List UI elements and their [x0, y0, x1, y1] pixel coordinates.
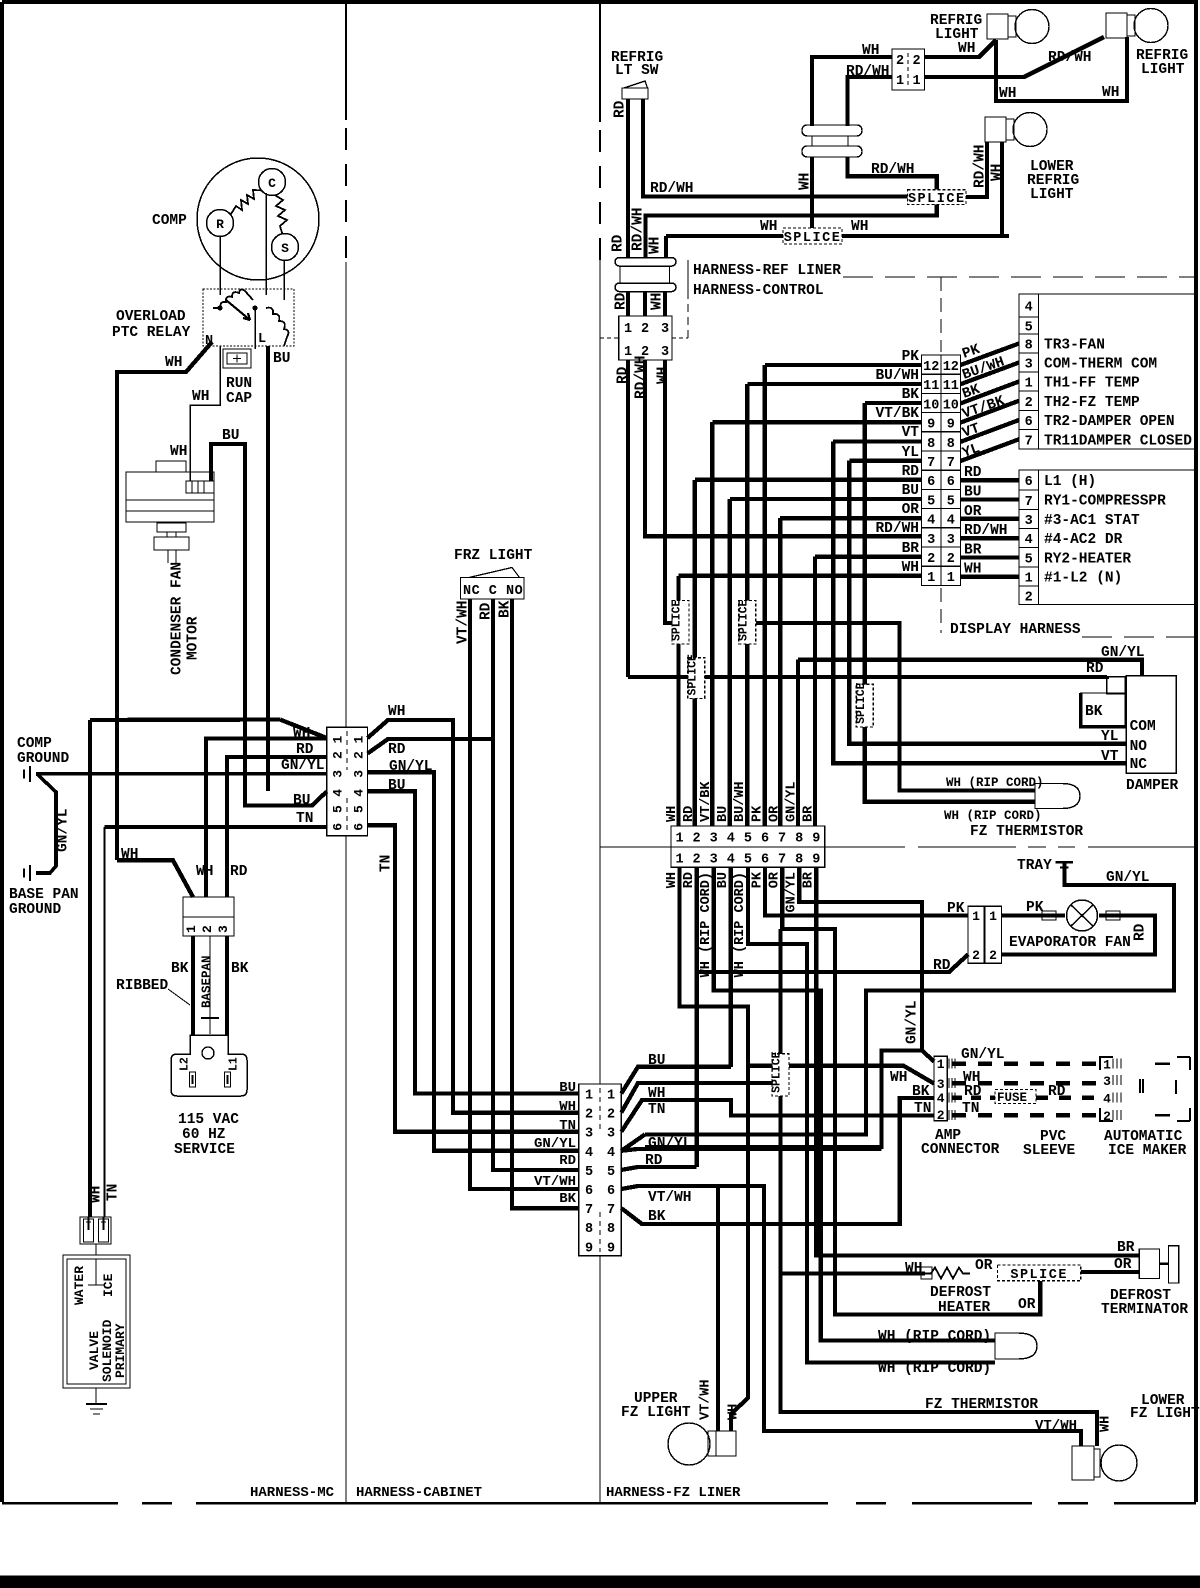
svg-text:WH: WH [964, 562, 981, 578]
svg-text:6: 6 [927, 475, 935, 490]
svg-text:4: 4 [352, 789, 367, 797]
svg-text:TN: TN [296, 811, 313, 827]
svg-text:GN/YL: GN/YL [281, 758, 325, 774]
svg-text:VT/WH: VT/WH [1035, 1418, 1077, 1434]
svg-text:1: 1 [607, 1089, 615, 1104]
svg-text:RD: RD [296, 742, 314, 758]
wire BK basepan pin1 ribbed power lead [191, 936, 195, 1036]
wires C1 bars to 3-pin box [626, 292, 630, 317]
wire RD/WH inline connector to splice 1 [848, 157, 937, 190]
svg-text:DEFROST: DEFROST [930, 1285, 991, 1301]
wire BR liner pin9 to defrost terminator [816, 867, 1139, 1255]
svg-text:5: 5 [585, 1165, 593, 1180]
svg-text:2: 2 [200, 925, 215, 933]
svg-text:6: 6 [607, 1184, 615, 1199]
wire WH ladder row1 riser [679, 576, 922, 601]
damper BK jumper box [1081, 693, 1126, 727]
svg-text:3: 3 [585, 1127, 593, 1142]
svg-text:OR: OR [975, 1258, 993, 1274]
svg-text:VT/BK: VT/BK [699, 781, 714, 822]
upper FZ light bulb [708, 1431, 716, 1456]
svg-text:BASEPAN: BASEPAN [200, 955, 214, 1008]
svg-text:2: 2 [693, 853, 701, 868]
svg-text:FRZ LIGHT: FRZ LIGHT [454, 548, 533, 564]
svg-text:1: 1 [1025, 572, 1033, 587]
svg-text:SOLENOID: SOLENOID [100, 1319, 115, 1382]
svg-text:RD/WH: RD/WH [631, 207, 647, 251]
svg-text:WH: WH [293, 726, 310, 742]
water valve ground [95, 1388, 97, 1404]
wire RD evap fan return [1002, 916, 1155, 955]
wire WH rip liner pin5 to FZ thermistor 2 bottom [748, 867, 995, 1362]
svg-text:RD/WH: RD/WH [964, 523, 1008, 539]
condenser fan motor body [156, 461, 186, 472]
svg-text:BU/WH: BU/WH [733, 781, 748, 822]
svg-text:OR: OR [964, 504, 982, 520]
svg-text:3: 3 [937, 1077, 945, 1092]
wire BK basepan pin3 power lead [225, 936, 229, 1036]
svg-text:RD/WH: RD/WH [871, 162, 915, 178]
svg-text:5: 5 [1025, 321, 1033, 336]
wire WH inline connector to splice 2 [810, 157, 814, 228]
wire GN/YL to AMP pin1 [922, 1051, 934, 1062]
svg-text:BU: BU [716, 806, 731, 822]
wire WH rip liner pin3 to FZ thermistor 2 top [714, 867, 995, 1340]
wire OR ladder row4 riser [780, 518, 921, 826]
wire GN/YL comp ground to 6-pin pin3 [36, 772, 327, 776]
defrost terminator [1139, 1249, 1159, 1279]
svg-text:TR3-FAN: TR3-FAN [1044, 338, 1105, 354]
wire GN/YL cabinet pin4 to tray loop [621, 1134, 645, 1150]
svg-text:RD: RD [964, 1084, 982, 1100]
svg-text:1: 1 [989, 909, 997, 924]
svg-text:RD: RD [964, 465, 982, 481]
svg-text:RUN: RUN [226, 376, 252, 392]
svg-text:OVERLOAD: OVERLOAD [116, 309, 186, 325]
svg-text:5: 5 [744, 832, 752, 847]
defrost heater element [925, 1268, 970, 1279]
wire WH splice branch [665, 621, 673, 625]
svg-text:WH: WH [388, 704, 405, 720]
svg-text:6: 6 [947, 475, 955, 490]
splice BU/WH control [739, 601, 756, 645]
wire RD/WH splice 1 to lower refrig light [966, 142, 987, 197]
svg-text:7: 7 [585, 1203, 593, 1218]
wire OR liner pin7 to defrost heater loop [782, 867, 1040, 1314]
svg-text:3: 3 [216, 925, 231, 933]
svg-text:4: 4 [727, 832, 735, 847]
overload PTC relay box [203, 289, 294, 346]
wire WH refrig light 1 to light 2 return [996, 37, 1127, 101]
splice defrost heater [998, 1265, 1081, 1281]
lower FZ light bulb [1072, 1446, 1094, 1480]
svg-text:WH: WH [798, 173, 814, 190]
bottom border line with dash gaps [2, 1502, 1196, 1505]
svg-text:9: 9 [927, 418, 935, 433]
svg-text:5: 5 [1025, 552, 1033, 567]
svg-text:COMP: COMP [152, 213, 187, 229]
svg-text:GROUND: GROUND [9, 902, 62, 918]
wire TN dashed to ice maker [952, 1113, 1100, 1118]
svg-text:BK: BK [912, 1084, 930, 1100]
svg-text:BU: BU [902, 483, 919, 499]
svg-text:10: 10 [943, 398, 959, 413]
bottom page edge black bar [0, 1576, 1200, 1588]
svg-text:CAP: CAP [226, 391, 252, 407]
svg-text:BR: BR [1117, 1240, 1135, 1256]
svg-text:1: 1 [896, 74, 904, 89]
svg-text:L1 (H): L1 (H) [1044, 474, 1096, 490]
svg-text:CONNECTOR: CONNECTOR [921, 1142, 1000, 1158]
wire RD/WH refrig switch to splice [643, 99, 908, 197]
FZ thermistor 1 bulb [1035, 784, 1080, 809]
svg-text:WH: WH [902, 560, 919, 576]
svg-text:3: 3 [710, 832, 718, 847]
compressor winding C-S [275, 195, 287, 234]
svg-text:4: 4 [927, 514, 935, 529]
svg-text:4: 4 [1025, 533, 1033, 548]
svg-text:BU: BU [388, 778, 405, 794]
svg-text:TRAY: TRAY [1017, 858, 1052, 874]
wire WH basepan pin2 to 6-pin pin1 [206, 739, 327, 898]
svg-text:3: 3 [1103, 1074, 1111, 1089]
wire GN/YL dashed to ice maker [952, 1061, 1100, 1066]
wire RD ladder row6 riser [695, 480, 922, 658]
svg-text:3: 3 [947, 533, 955, 548]
svg-text:FZ LIGHT: FZ LIGHT [621, 1405, 691, 1421]
svg-text:COM-THERM COM: COM-THERM COM [1044, 357, 1157, 373]
svg-text:11: 11 [923, 379, 939, 394]
svg-text:2: 2 [927, 552, 935, 567]
svg-text:TN: TN [962, 1101, 979, 1117]
svg-text:12: 12 [923, 360, 939, 375]
svg-text:GN/YL: GN/YL [648, 1136, 692, 1152]
svg-text:GN/YL: GN/YL [1106, 870, 1150, 886]
svg-text:2: 2 [641, 322, 649, 337]
wire WH relay to condenser fan motor [190, 346, 220, 481]
svg-text:4: 4 [331, 789, 346, 797]
wire GN/YL liner pin8 branch [799, 867, 922, 1050]
svg-text:WH: WH [196, 864, 213, 880]
svg-text:3: 3 [607, 1127, 615, 1142]
svg-text:TN: TN [379, 855, 395, 872]
wire RD basepan pin3 to 6-pin pin2 [227, 757, 327, 897]
svg-text:PTC RELAY: PTC RELAY [112, 325, 191, 341]
compressor terminal R [207, 210, 234, 237]
svg-text:VT/WH: VT/WH [456, 600, 472, 644]
svg-text:2: 2 [1103, 1109, 1111, 1124]
svg-text:TH2-FZ TEMP: TH2-FZ TEMP [1044, 395, 1140, 411]
svg-text:RD/WH: RD/WH [1048, 50, 1092, 66]
svg-text:1: 1 [927, 571, 935, 586]
svg-text:WATER: WATER [72, 1266, 87, 1305]
svg-text:WH: WH [656, 367, 672, 384]
FZ thermistor 2 bulb [995, 1333, 1037, 1359]
wire BU 6-pin pin4 to bottom connector pin1 [368, 791, 579, 1093]
wire RD switch C joins RD run [491, 599, 495, 739]
overload actuator arrow [226, 300, 250, 320]
svg-text:9: 9 [812, 853, 820, 868]
wire WH to 2-pin connector pin2 [812, 57, 892, 126]
svg-text:1: 1 [675, 853, 683, 868]
svg-text:OR: OR [902, 502, 920, 518]
svg-text:RD: RD [682, 806, 697, 822]
svg-text:L2: L2 [179, 1057, 192, 1071]
svg-text:WH (RIP CORD): WH (RIP CORD) [944, 809, 1042, 823]
wire WH branch to AMP connector pin3 [748, 1066, 934, 1084]
svg-text:RD: RD [933, 958, 951, 974]
wire BU relay L down [266, 346, 270, 791]
svg-text:3: 3 [1025, 358, 1033, 373]
svg-text:TN: TN [914, 1101, 931, 1117]
basepan ground lead [209, 936, 211, 1034]
svg-text:YL: YL [1101, 729, 1118, 745]
svg-text:WH: WH [192, 389, 209, 405]
svg-text:7: 7 [778, 832, 786, 847]
svg-text:PK: PK [750, 805, 765, 822]
svg-text:3: 3 [1025, 514, 1033, 529]
basepan connector [183, 897, 234, 936]
svg-text:HARNESS-REF LINER: HARNESS-REF LINER [693, 263, 841, 279]
svg-text:RD/WH: RD/WH [846, 64, 890, 80]
wire RD/WH splice1 bottom return to connector C1 [646, 205, 937, 259]
svg-text:RD: RD [230, 864, 248, 880]
svg-text:4: 4 [607, 1146, 615, 1161]
svg-text:HEATER: HEATER [938, 1300, 991, 1316]
wire WH C1 pin3 down to WH splice [665, 360, 673, 623]
svg-text:VT: VT [1101, 749, 1119, 765]
svg-text:VT/WH: VT/WH [698, 1379, 713, 1420]
wire VT/WH cabinet pin6 to FZ lights [621, 1186, 1081, 1446]
svg-text:1: 1 [624, 322, 632, 337]
svg-text:6: 6 [761, 832, 769, 847]
svg-text:VT: VT [902, 425, 920, 441]
svg-text:RD: RD [1048, 1084, 1066, 1100]
svg-text:1: 1 [331, 736, 346, 744]
svg-text:GN/YL: GN/YL [905, 1000, 921, 1044]
6-pin connector MC-CABINET [327, 727, 368, 836]
svg-text:2: 2 [1025, 396, 1033, 411]
wire WH liner pin1 jog [680, 867, 748, 1431]
splice BK control [856, 684, 873, 727]
2-pin connector refrig lights [892, 49, 925, 90]
svg-text:NO: NO [1130, 739, 1148, 755]
wire RD liner pin2 down [694, 867, 698, 1167]
svg-text:WH: WH [559, 1099, 576, 1115]
9-pin connector CONTROL-FZ LINER [671, 826, 825, 867]
harness divider HARNESS-MC / HARNESS-CABINET at x=346 [345, 4, 347, 120]
svg-text:WH: WH [650, 293, 666, 310]
svg-text:NC: NC [1130, 757, 1148, 773]
svg-text:BU: BU [293, 793, 310, 809]
svg-text:SPLICE: SPLICE [1010, 1268, 1068, 1283]
overload element [213, 289, 253, 308]
svg-text:2: 2 [585, 1108, 593, 1123]
svg-text:OR: OR [1114, 1257, 1132, 1273]
svg-text:VT/BK: VT/BK [875, 406, 919, 422]
wire BK switch NO to bottom connector pin7 [512, 599, 579, 1208]
svg-text:LIGHT: LIGHT [1030, 187, 1074, 203]
svg-text:RD: RD [559, 1153, 576, 1169]
svg-text:3: 3 [927, 533, 935, 548]
water valve PRIMARY SOLENOID VALVE [63, 1255, 130, 1388]
svg-text:OR: OR [767, 805, 782, 822]
svg-text:1: 1 [1025, 377, 1033, 392]
svg-text:2: 2 [989, 948, 997, 963]
svg-text:WH (RIP CORD): WH (RIP CORD) [878, 1361, 991, 1377]
harness divider REF LINER / CONTROL at y=277 [687, 260, 689, 296]
wire BR ladder row2 riser [815, 557, 922, 826]
svg-text:8: 8 [585, 1222, 593, 1237]
evaporator fan connector [968, 906, 984, 963]
svg-text:9: 9 [585, 1241, 593, 1256]
lower refrig light bulb [985, 117, 1006, 142]
svg-text:RIBBED: RIBBED [116, 978, 169, 994]
svg-text:WH: WH [170, 444, 187, 460]
svg-text:1: 1 [585, 1089, 593, 1104]
svg-text:BU: BU [964, 485, 981, 501]
svg-text:3: 3 [352, 770, 367, 778]
svg-text:YL: YL [902, 445, 919, 461]
svg-text:4: 4 [937, 1091, 945, 1106]
svg-text:WH (RIP CORD): WH (RIP CORD) [878, 1329, 991, 1345]
svg-text:6: 6 [761, 853, 769, 868]
comp ground symbol [23, 770, 25, 779]
svg-text:HARNESS-MC: HARNESS-MC [250, 1485, 335, 1501]
wire RD refrig switch to connector C1 [626, 99, 630, 258]
wire PK liner pin6 to evaporator fan [765, 867, 968, 915]
svg-text:C: C [268, 176, 276, 191]
svg-text:SPLICE: SPLICE [770, 1051, 783, 1093]
svg-text:3: 3 [661, 322, 669, 337]
wire OR pin7 into WH splice [778, 929, 782, 1054]
svg-text:DAMPER: DAMPER [1126, 778, 1179, 794]
svg-text:8: 8 [795, 832, 803, 847]
svg-text:WH: WH [958, 41, 975, 57]
evaporator fan motor symbol [1067, 900, 1098, 931]
svg-text:L: L [258, 332, 266, 347]
svg-text:FZ LIGHT: FZ LIGHT [1130, 1406, 1200, 1422]
svg-text:S: S [281, 241, 289, 256]
svg-text:7: 7 [1025, 495, 1033, 510]
svg-text:RD: RD [616, 366, 632, 384]
svg-text:4: 4 [947, 514, 955, 529]
wire GN/YL branch to cabinet pin4 [645, 1051, 922, 1148]
svg-text:GN/YL: GN/YL [1101, 645, 1145, 661]
wire TN 6-pin pin6 to bottom connector pin3 [368, 825, 579, 1131]
wire WH splice 2 to lower refrig light [842, 142, 1009, 236]
inline connector refrig harness [802, 125, 862, 136]
svg-text:4: 4 [1025, 301, 1033, 316]
svg-text:FUSE: FUSE [997, 1091, 1027, 1105]
wire WH left to splice 2 [666, 234, 783, 238]
splice WH control [672, 601, 689, 645]
svg-text:VT/WH: VT/WH [534, 1174, 576, 1190]
svg-text:ICE MAKER: ICE MAKER [1108, 1143, 1187, 1159]
svg-text:3: 3 [661, 345, 669, 360]
svg-text:COMP: COMP [17, 736, 52, 752]
wire WH service down to valve plug [88, 720, 92, 1217]
svg-text:HARNESS-CABINET: HARNESS-CABINET [356, 1485, 482, 1501]
svg-text:TN: TN [648, 1102, 665, 1118]
svg-text:SERVICE: SERVICE [174, 1142, 235, 1158]
svg-text:1: 1 [912, 74, 920, 89]
svg-text:BU/WH: BU/WH [875, 368, 919, 384]
svg-text:1: 1 [624, 345, 632, 360]
svg-text:7: 7 [1025, 434, 1033, 449]
wire RD C1 pin1 down to damper feed [626, 360, 630, 677]
svg-text:#3-AC1 STAT: #3-AC1 STAT [1044, 513, 1140, 529]
damper connector small box [1107, 677, 1126, 694]
svg-text:WH: WH [165, 355, 182, 371]
svg-text:HARNESS-FZ LINER: HARNESS-FZ LINER [606, 1485, 741, 1501]
svg-text:GN/YL: GN/YL [785, 781, 800, 822]
wire BK ladder row10 riser [865, 403, 922, 684]
svg-text:RD/WH: RD/WH [875, 521, 919, 537]
svg-text:WH: WH [851, 219, 868, 235]
svg-text:5: 5 [947, 494, 955, 509]
wire BK cabinet pin7 to AMP pin4 [621, 1098, 934, 1224]
wire GN/YL tray ground loop [645, 862, 1174, 1134]
svg-text:BK: BK [1085, 704, 1103, 720]
svg-text:2: 2 [352, 751, 367, 759]
wire RD to damper connector [628, 675, 1107, 680]
harness divider CONTROL / FZ LINER at y=847 [600, 846, 1196, 848]
svg-text:1: 1 [675, 832, 683, 847]
svg-text:7: 7 [778, 853, 786, 868]
svg-text:BR: BR [964, 542, 982, 558]
ice maker internal marks [1140, 1079, 1143, 1093]
svg-text:WH: WH [1102, 85, 1119, 101]
svg-text:MOTOR: MOTOR [186, 616, 202, 660]
svg-text:BR: BR [802, 805, 817, 822]
display harness dashed boundary at x=941 [940, 277, 942, 352]
wire BU/WH ladder row11 riser [747, 384, 921, 601]
svg-text:115 VAC: 115 VAC [178, 1112, 239, 1128]
svg-text:PK: PK [1026, 900, 1044, 916]
svg-text:WH: WH [990, 164, 1006, 181]
label TN 6-pin pin6 left wire [105, 825, 327, 829]
wire BU/WH splice to FZ thermistor 1 [756, 623, 1035, 790]
svg-text:RD: RD [611, 234, 627, 252]
splice RD control [688, 658, 705, 699]
svg-text:9: 9 [607, 1241, 615, 1256]
wire relay to run cap [254, 308, 256, 349]
svg-text:RD: RD [645, 1153, 663, 1169]
svg-text:RD/WH: RD/WH [634, 355, 650, 399]
svg-text:6: 6 [585, 1184, 593, 1199]
base pan ground symbol [23, 869, 25, 878]
wire RD/WH to 2-pin connector pin1 [848, 77, 893, 126]
wire PK ladder row12 riser [765, 365, 922, 826]
svg-text:2: 2 [693, 832, 701, 847]
svg-text:DISPLAY HARNESS: DISPLAY HARNESS [950, 622, 1081, 638]
wire RD cabinet pin5 riser [621, 1167, 696, 1170]
svg-text:5: 5 [331, 805, 346, 813]
wire compressor S to relay [283, 260, 285, 300]
splice 1 RD/WH [908, 190, 967, 205]
wire WH connector pin2 to refrig light 1 [925, 40, 997, 57]
svg-text:BU: BU [648, 1053, 665, 1069]
wire TN cabinet pin3 to AMP pin2 [621, 1100, 934, 1132]
svg-text:1: 1 [972, 909, 980, 924]
svg-text:RD/WH: RD/WH [650, 181, 694, 197]
svg-text:PRIMARY: PRIMARY [113, 1323, 128, 1378]
wire OR splice to defrost terminator [1081, 1270, 1140, 1274]
svg-text:4: 4 [727, 853, 735, 868]
svg-text:GN/YL: GN/YL [961, 1047, 1005, 1063]
svg-text:BASE PAN: BASE PAN [9, 887, 79, 903]
